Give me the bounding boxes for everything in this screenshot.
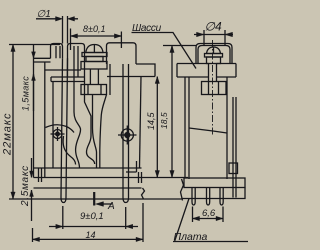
dim 8±0,1 right arrow (114, 34, 121, 38)
dim 18,5 line (171, 46, 173, 178)
dim 8±0,1 left arrow (71, 34, 78, 38)
svg-text:6,6: 6,6 (202, 208, 216, 219)
strap inner (198, 46, 230, 64)
screw: neck (86, 57, 103, 62)
dim 9±0,1 extension lines (63, 206, 126, 229)
dim 6,6 line (193, 218, 224, 220)
screw: nut (81, 85, 107, 95)
pin 1 lower part (front view) (61, 58, 68, 202)
dim 14 line (33, 238, 144, 240)
front view: tower 1 inner lines (56, 46, 60, 58)
front view: left outer wall (33, 58, 35, 177)
front view: base mid line (34, 177, 189, 179)
screw: slot (93, 45, 95, 53)
nut below plate (202, 82, 227, 95)
dim phi1 leader line with arrows (36, 18, 78, 20)
front view: base bottom line (34, 187, 142, 189)
nut facets (209, 82, 219, 95)
pin 2 (front view) (123, 64, 129, 203)
side pin C (220, 188, 223, 206)
leader line Плата with underline (173, 199, 248, 242)
svg-text:А: А (107, 201, 115, 212)
svg-text:2,5макс: 2,5макс (20, 165, 31, 207)
dim 1,5макс arrow down (32, 52, 36, 59)
screw: shank (90, 69, 98, 85)
screw: washer under head (82, 53, 107, 57)
dim 8±0,1 extension lines (71, 29, 122, 51)
dim 14 arrows (33, 237, 40, 241)
armature arc over left rivet (46, 125, 75, 133)
section mark A arrow (96, 202, 104, 207)
side board section (183, 188, 246, 199)
svg-text:1,5макс: 1,5макс (21, 76, 31, 111)
left rivet (53, 130, 62, 139)
tower 2 inner vertical (77, 46, 79, 77)
svg-text:∅1: ∅1 (37, 9, 51, 20)
front view: right tab (107, 43, 137, 64)
dim phi4 line (194, 34, 233, 36)
dim 2,5макс lower line (31, 190, 33, 221)
svg-text:Плата: Плата (174, 231, 208, 243)
left clamp arm: left edge (74, 46, 81, 168)
chassis plate (177, 64, 236, 78)
dim phi4 extension lines (204, 30, 225, 46)
dim 22макс bottom extension line / board bottom line (9, 198, 144, 200)
dim 1,5макс lower line (33, 74, 35, 111)
lower left S-curve (63, 136, 76, 165)
front view: tower 2 (68, 44, 85, 78)
dim 14 extension lines (33, 203, 144, 242)
section mark A bar (93, 192, 95, 206)
dim 9±0,1 line (49, 226, 138, 228)
svg-text:8±0,1: 8±0,1 (83, 24, 105, 34)
dim 22макс top extension line (9, 44, 60, 46)
side body right edge (226, 77, 228, 179)
front view: top right block (136, 64, 155, 77)
front view: body shoulder line (107, 76, 155, 78)
dim 6,6 arrows (193, 216, 200, 220)
dim 1,5макс upper line (33, 45, 35, 59)
front view: left wall inner (44, 62, 46, 178)
front view: right wall (140, 77, 142, 169)
side base box (184, 178, 245, 188)
front view: base left step ticks (39, 168, 42, 182)
dim phi4 arrows (197, 32, 205, 37)
svg-text:14,5: 14,5 (146, 111, 156, 130)
strap outer (196, 44, 232, 64)
left clamp arm: right edge (T2 edge continuation) (85, 58, 95, 164)
side body left edge (188, 77, 190, 179)
side pin B (207, 188, 210, 206)
leader line Шасси (132, 33, 197, 69)
dim 6,6 extension lines (193, 207, 224, 223)
side body left edge outer (184, 77, 186, 178)
dim 22макс vertical line (12, 45, 14, 200)
svg-text:∅4: ∅4 (205, 20, 222, 34)
front view: body bottom line (34, 167, 142, 169)
screw centerline (dash-dot) (212, 40, 214, 135)
pin phi1 through towers (63, 16, 68, 44)
dim 18,5 top extension line (163, 45, 196, 47)
dim 2,5макс upper line (31, 158, 33, 178)
side screw slot (213, 47, 215, 54)
board section between views (142, 188, 145, 199)
screw: stem below nut tapering (93, 95, 97, 169)
screw shank through plate (209, 64, 217, 82)
front view: inner vertical below right tab (109, 64, 111, 95)
side rear block (229, 163, 238, 174)
svg-text:18,5: 18,5 (159, 112, 169, 129)
svg-text:Шасси: Шасси (132, 23, 162, 34)
dim 2,5макс arrow up (30, 190, 34, 197)
dim 22макс top arrow (11, 45, 15, 52)
dim 2,5макс arrow down (30, 171, 34, 178)
paper background (0, 0, 248, 250)
side body fold diagonal (189, 128, 227, 133)
dim 22макс bottom arrow (11, 192, 15, 199)
front view: tower 1 (51, 44, 63, 59)
front view: hanger bar of clamp (51, 77, 85, 82)
front view: base right step (126, 161, 142, 183)
front view: plateau edge lines (34, 58, 51, 62)
side pin A (192, 188, 195, 206)
right rivet (121, 129, 133, 141)
dim 8±0,1 line (71, 35, 122, 37)
screw: dome head (86, 45, 103, 53)
side rear column (233, 97, 236, 198)
screw: flange plate (81, 62, 107, 70)
side screw washer (205, 54, 223, 58)
svg-text:22макс: 22макс (2, 113, 14, 156)
dim 14,5 line (156, 77, 158, 178)
dim 1,5макс arrow up (32, 74, 36, 81)
side screw nut upper (207, 57, 221, 64)
side screw dome (207, 47, 221, 54)
front view: lining line below bar (52, 82, 54, 169)
svg-text:14: 14 (86, 230, 96, 240)
front view: body top edge behind towers (45, 69, 81, 71)
dim 9±0,1 arrows (56, 224, 63, 228)
svg-text:9±0,1: 9±0,1 (80, 211, 104, 222)
screw: nut facets (88, 85, 101, 95)
